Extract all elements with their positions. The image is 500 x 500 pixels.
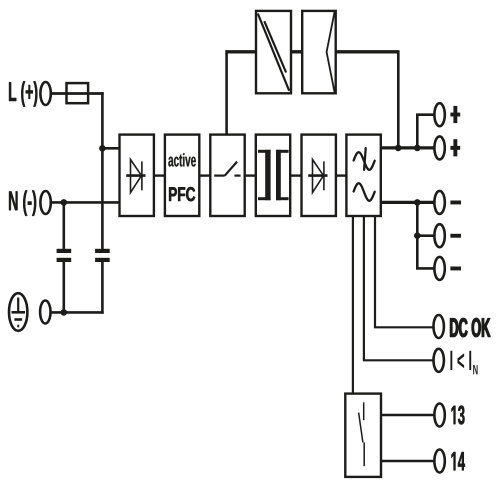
wire minus branch mid [417, 234, 434, 237]
terminal PE [40, 301, 50, 324]
wire between feedback blocks [291, 50, 302, 53]
relay switch symbol [359, 402, 365, 466]
wire plus branch up [417, 115, 434, 148]
wire switch to transformer [245, 174, 256, 176]
transformer block T1 [256, 135, 290, 216]
wire output plus [381, 146, 435, 149]
terminal 14 [434, 450, 444, 473]
relay block K1 [345, 394, 381, 477]
switch block S1 [210, 135, 244, 216]
label PFC [169, 187, 195, 201]
node minus rail A [414, 199, 421, 206]
earth symbol [9, 293, 27, 331]
terminal N(-) [40, 191, 50, 214]
terminal plus 2 [434, 136, 444, 159]
label 13 [452, 406, 465, 425]
output filter block U4 [346, 135, 380, 216]
wire output pin 3 (DC OK) [375, 216, 435, 327]
minus sign 2 [450, 234, 461, 238]
wire capacitor C2 bottom lead [101, 262, 104, 314]
wire minus vertical [417, 202, 434, 268]
terminal minus 3 [434, 257, 444, 280]
node plus rail B [414, 145, 421, 152]
minus sign 3 [450, 267, 461, 271]
wire feedback left rail [225, 50, 256, 53]
diode D1 [126, 160, 145, 193]
active PFC block U2 [165, 135, 199, 216]
terminal minus 2 [434, 224, 444, 247]
label active [168, 153, 196, 166]
transformer windings symbol [258, 150, 289, 200]
label 14 [452, 452, 465, 470]
wire rectifier to PFC [154, 174, 165, 176]
wire output pin 2 (I<IN) [364, 216, 435, 360]
rectifier block U1 [120, 135, 154, 216]
terminal plus 1 [434, 103, 444, 126]
wire N to rectifier [52, 201, 120, 204]
plus sign 2 [450, 139, 460, 156]
wire capacitor C1 top lead [62, 202, 65, 249]
wire output minus [381, 201, 435, 204]
feedback block B (amplifier) [302, 11, 336, 93]
wire output pin 1 (relay feed) [352, 216, 354, 394]
isolation diagonal lines [258, 14, 289, 91]
wire switch feedback up [225, 53, 228, 134]
label DC OK [450, 318, 490, 337]
terminal minus 1 [434, 191, 444, 214]
label L (+) [9, 81, 37, 106]
sine wave top steep stroke [364, 148, 366, 170]
feedback block A (isolation) [256, 11, 291, 93]
terminal 13 [434, 404, 444, 427]
terminal DC OK [434, 315, 444, 338]
wire relay contact 13 [381, 414, 435, 417]
wire junction to rectifier [102, 147, 119, 150]
sine wave top [354, 152, 375, 170]
capacitor C1 [57, 249, 72, 262]
wire diode to output stage [336, 174, 347, 176]
node N-capacitor junction [61, 199, 68, 206]
wire relay contact 14 [381, 460, 435, 463]
amplifier triangle [327, 12, 335, 93]
terminal I<IN [434, 349, 444, 372]
label subscript N [473, 365, 477, 374]
switch symbol [214, 162, 240, 176]
label N (-) [9, 190, 36, 215]
node minus rail B [414, 232, 421, 239]
label I < I [450, 351, 471, 370]
minus sign 1 [450, 201, 461, 205]
sine wave bottom [354, 183, 375, 201]
node ground junction [61, 309, 68, 316]
wire L terminal through fuse to corner [52, 92, 104, 95]
wire feedback right rail [336, 50, 399, 53]
wire vertical L drop [101, 92, 104, 249]
ground rail wire [51, 311, 104, 314]
capacitor C2 [95, 249, 110, 262]
diode D2 [308, 160, 327, 193]
plus sign 1 [450, 106, 460, 123]
wire capacitor C1 bottom lead [62, 262, 65, 312]
terminal L(+) [40, 82, 50, 105]
fuse F1 [67, 83, 89, 103]
wire PFC to switch [199, 174, 210, 176]
diode block U3 [302, 135, 336, 216]
node L-rectifier junction [99, 145, 106, 152]
wire transformer to diode [290, 174, 301, 176]
node plus rail A [395, 145, 402, 152]
